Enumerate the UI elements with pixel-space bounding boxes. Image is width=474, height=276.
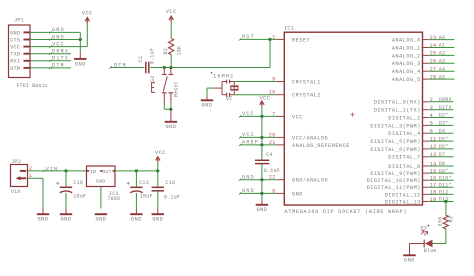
svg-text:R2: R2 [163,48,169,55]
wire C19 to ground [65,193,67,209]
pin 13 DIGITAL_7 net D7 [388,152,453,161]
svg-text:GND: GND [10,30,20,36]
wire rail pin22 to pin8 [261,180,263,194]
net label GND (JP1 pin2) [49,34,64,40]
svg-text:VCC: VCC [10,45,20,51]
svg-text:1: 1 [272,34,275,40]
svg-text:DIGITAL_1(TX): DIGITAL_1(TX) [374,108,421,114]
wire D0RX JP1 [30,53,71,55]
svg-text:D0RX: D0RX [52,49,69,55]
svg-text:D1TX: D1TX [52,56,69,62]
svg-text:C13: C13 [139,180,149,186]
wire RESET node up to pin 1 [240,39,276,67]
svg-text:9: 9 [272,77,275,83]
svg-text:GND: GND [52,27,65,33]
pin 3 DIGITAL_1(TX) net D1TX [374,105,454,114]
svg-text:ANALOG_3: ANALOG_3 [392,61,421,67]
svg-text:GND: GND [152,217,163,223]
svg-text:GND: GND [242,188,255,194]
svg-text:JP2: JP2 [11,159,21,165]
junction pin20 [260,136,263,139]
svg-text:D6*: D6* [439,144,449,150]
svg-text:D3*: D3* [439,121,449,127]
power VCC (pin 7) [260,96,271,107]
svg-text:A1: A1 [439,43,446,49]
wire VCC pin7 [239,115,277,117]
svg-text:IC1: IC1 [284,26,294,32]
svg-text:24: 24 [430,43,437,49]
wire AREF pin21 [239,144,277,146]
net label VIN [43,166,58,172]
svg-text:DIGITAL_5(PWM): DIGITAL_5(PWM) [370,139,421,145]
wire 5V rail [115,170,158,172]
wire C10 to ground [157,191,159,209]
svg-text:A0: A0 [439,35,446,41]
resistor R3 330 [437,215,454,229]
wire rail to ground [261,193,263,199]
junction resistor R2 [169,66,172,69]
svg-text:ANALOG_5: ANALOG_5 [392,77,421,83]
pin 12 DIGITAL_6(PWM) net D6* [370,144,453,153]
net label RST [239,34,255,40]
pin 16 DIGITAL_10(PWM) net D10* [367,175,454,184]
svg-text:D11*: D11* [439,183,452,189]
svg-text:AREF: AREF [242,140,259,146]
net label GND (JP1 pin1) [49,27,64,33]
net label DTR (JP1) [49,63,64,69]
svg-text:C19: C19 [73,180,83,186]
junction pin22 [260,178,263,181]
svg-text:DIGITAL_7: DIGITAL_7 [388,155,421,161]
pin 8 GND [272,188,303,197]
ground GND (C19) [60,209,72,223]
junction pin21 [260,143,263,146]
net label D0RX [49,49,69,55]
wire DTR to C1 [109,66,144,68]
wire C4 to GND rail [261,164,263,180]
svg-text:S2: S2 [150,75,156,82]
svg-text:Vin: Vin [11,189,21,195]
junction D13 [444,200,447,203]
ground GND (C13) [130,209,142,223]
svg-text:GND/ANALOG: GND/ANALOG [292,178,328,184]
svg-text:FTDI Basic: FTDI Basic [17,83,49,89]
svg-text:27: 27 [430,67,437,73]
svg-text:GND: GND [256,207,267,213]
ground GND (below S2) [165,109,177,130]
svg-text:DTR: DTR [114,62,127,68]
svg-text:VCC/ANALOG: VCC/ANALOG [292,135,328,141]
wire VCC JP1 [30,24,87,47]
svg-text:7805: 7805 [107,196,120,202]
wire S2 to ground [164,103,171,109]
wire to C13 [135,171,137,187]
wire R3 to LED [433,229,446,244]
wire DTR JP1 [30,67,71,69]
capacitor C4 0.1uF [255,152,280,174]
svg-text:DIGITAL_4: DIGITAL_4 [388,131,421,137]
pin 28 ANALOG_5 net A5 [392,74,455,83]
svg-text:GND: GND [404,258,415,264]
pin 7 VCC [272,111,303,120]
svg-text:0.1uF: 0.1uF [164,194,180,200]
wire to C19 [65,171,67,187]
svg-text:OUT: OUT [102,169,111,175]
power VCC (above JP1) [82,11,93,24]
svg-text:RESET: RESET [292,37,310,43]
svg-text:IN: IN [90,169,96,175]
power VCC (above R2) [166,9,177,22]
svg-text:GND: GND [38,217,49,223]
svg-text:C10: C10 [165,180,175,186]
svg-text:VCC: VCC [260,96,271,102]
svg-text:DIGITAL_2: DIGITAL_2 [388,115,421,121]
svg-text:GND: GND [292,191,303,197]
svg-text:GND: GND [52,34,65,40]
ground GND (IC1) [256,200,268,214]
svg-text:TXD: TXD [10,52,20,58]
svg-text:10K: 10K [177,46,183,56]
svg-text:DIGITAL_8: DIGITAL_8 [388,164,421,170]
svg-text:A2: A2 [439,51,446,57]
junction S2 ground [169,108,172,111]
svg-text:CRYSTAL2: CRYSTAL2 [292,93,321,99]
svg-text:0.1uF: 0.1uF [150,48,156,64]
svg-text:23: 23 [430,35,437,41]
wire rail pin7 to pin20 [261,116,263,137]
pin 22 GND/ANALOG [269,175,328,184]
pin 4 DIGITAL_2 net D2* [388,113,453,122]
net label D1TX [49,56,69,62]
pin 17 DIGITAL_11(PWM) net D11* [367,183,454,192]
svg-text:D4: D4 [439,128,446,134]
svg-text:VCC: VCC [242,111,255,117]
wire C13 to ground [135,193,137,209]
ground GND (Q2) [201,96,213,108]
LED D3 Blue [421,225,437,254]
svg-text:17: 17 [430,183,437,189]
svg-text:JP1: JP1 [14,18,24,24]
ground GND (below JP1) [74,53,86,67]
capacitor C19 10uF [56,180,86,199]
svg-text:DIGITAL_6(PWM): DIGITAL_6(PWM) [370,147,421,153]
svg-text:VCC: VCC [292,114,303,120]
wire rail to C4 [261,145,263,160]
svg-text:2: 2 [430,97,433,103]
svg-text:0.1uF: 0.1uF [264,168,280,174]
svg-text:Blue: Blue [424,248,437,254]
svg-text:DIGITAL_12: DIGITAL_12 [385,192,421,198]
junction pin7 [260,115,263,118]
svg-text:ATMEGA168 DIP SOCKET (WIRE WRA: ATMEGA168 DIP SOCKET (WIRE WRAP) [285,209,408,215]
pin 1 RESET [272,34,310,43]
resonator Q2 16MHz [207,72,239,102]
wire VCC pin20 [239,136,277,138]
svg-text:A3: A3 [439,59,446,65]
svg-text:GND: GND [131,217,142,223]
svg-text:C4: C4 [266,152,273,158]
pin 19 DIGITAL_13 net D13 [385,197,454,206]
svg-text:16MHz: 16MHz [213,73,234,79]
junction C19 [64,169,67,172]
svg-text:ANALOG_1: ANALOG_1 [392,45,421,51]
pin 11 DIGITAL_5(PWM) net D5* [370,136,453,145]
svg-text:RST: RST [242,34,255,40]
svg-text:6: 6 [430,129,433,135]
svg-text:ANALOG_2: ANALOG_2 [392,53,421,59]
svg-text:D9*: D9* [439,168,449,174]
svg-text:26: 26 [430,59,437,65]
svg-text:C1: C1 [138,55,144,62]
wire GND pin22 [239,179,277,181]
svg-text:ANALOG_REFERENCE: ANALOG_REFERENCE [292,143,350,149]
svg-text:A4: A4 [439,66,446,72]
svg-text:DIGITAL_0(RX): DIGITAL_0(RX) [374,100,421,106]
svg-text:DIGITAL_3(PWM): DIGITAL_3(PWM) [370,123,421,129]
capacitor C1 [138,48,156,73]
pin 23 ANALOG_0 net A0 [392,35,455,44]
svg-text:VCC: VCC [242,132,255,138]
capacitor C13 10uF [127,180,153,199]
connector JP1 (FTDI Basic) [9,18,49,89]
connector JP2 Vin [11,159,33,195]
wire IC3 GND to ground [100,187,102,209]
wire VCC arrow to rail [261,107,263,117]
svg-text:R3: R3 [449,216,455,223]
pin 9 CRYSTAL1 [272,77,321,86]
svg-text:10uF: 10uF [140,194,153,200]
svg-text:DIGITAL_11(PWM): DIGITAL_11(PWM) [367,185,421,191]
wire GND pin2 JP1 [30,39,80,41]
svg-text:GND: GND [95,217,106,223]
svg-text:28: 28 [430,74,437,80]
pin 5 DIGITAL_3(PWM) net D3* [370,121,453,130]
svg-text:VCC: VCC [155,150,166,156]
svg-text:GND: GND [75,61,86,67]
pin 27 ANALOG_4 net A4 [392,66,455,75]
wire rail pin20 to pin21 [261,137,263,145]
svg-text:D7: D7 [439,152,446,158]
capacitor C10 0.1uF [152,180,181,200]
svg-text:D5*: D5* [439,136,449,142]
pin 20 VCC/ANALOG [269,132,328,141]
ground GND (LED) [403,244,415,264]
svg-text:D2*: D2* [439,113,449,119]
wire to ground [79,40,81,54]
svg-text:Reset: Reset [174,81,180,97]
ground GND (JP2) [37,209,49,223]
pin 14 DIGITAL_8 net D8 [388,161,453,170]
svg-text:16: 16 [430,176,437,182]
wire CRYSTAL1 [234,81,277,83]
svg-text:ANALOG_0: ANALOG_0 [392,38,421,44]
svg-text:330: 330 [437,217,443,227]
ground GND (C10) [152,209,164,223]
wire R2 to node [170,55,172,68]
svg-text:DIGITAL_13: DIGITAL_13 [385,199,421,205]
junction pin8 [260,192,263,195]
pin 25 ANALOG_2 net A2 [392,51,455,60]
regulator IC3 7805 [87,166,121,202]
pin 26 ANALOG_3 net A3 [392,59,455,68]
svg-text:DTR: DTR [52,63,65,69]
svg-text:VCC: VCC [52,41,65,47]
svg-text:DTR: DTR [10,66,20,72]
svg-text:VCC: VCC [82,11,93,17]
svg-text:5: 5 [430,121,433,127]
switch S2 (Reset) [150,68,179,104]
pin 2 DIGITAL_0(RX) net D0RX [374,97,454,106]
pin 21 ANALOG_REFERENCE [269,140,350,149]
wire D1TX JP1 [30,60,71,62]
svg-text:11: 11 [430,136,437,142]
junction JP1 GND [79,38,82,41]
pin 18 DIGITAL_12 net D12 [385,190,454,199]
junction C10/VCC [156,169,159,172]
wire CRYSTAL2 [234,94,277,96]
svg-text:ANALOG_4: ANALOG_4 [392,69,421,75]
svg-text:3: 3 [430,105,433,111]
junction C13 [135,169,138,172]
svg-text:4: 4 [430,113,433,119]
svg-text:D10*: D10* [439,175,452,181]
wire GND pin1 JP1 [30,32,80,39]
svg-text:GND: GND [165,124,176,130]
svg-text:CTS: CTS [10,37,20,43]
svg-text:DIGITAL_9(PWM): DIGITAL_9(PWM) [370,171,421,177]
svg-text:VCC: VCC [166,9,177,15]
wire VCC to R2 [170,22,172,38]
svg-text:12: 12 [430,144,437,150]
resistor R2 10K [163,38,183,55]
svg-text:GND: GND [96,178,105,184]
power VCC (5V rail) [155,150,166,162]
svg-text:13: 13 [430,152,437,158]
svg-text:10uF: 10uF [73,194,86,200]
svg-text:D0RX: D0RX [439,97,452,103]
svg-text:GND: GND [202,103,213,109]
svg-text:19: 19 [430,197,437,203]
pin 15 DIGITAL_9(PWM) net D9* [370,168,453,177]
svg-text:D1TX: D1TX [439,105,452,111]
svg-text:A5: A5 [439,74,446,80]
pin 6 DIGITAL_4 net D4 [388,128,453,137]
junction RST [268,38,271,41]
svg-text:VIN: VIN [46,166,59,172]
wire GND pin8 [239,192,277,194]
wire LED to ground [410,243,425,245]
wire VCC arrow to rail [157,163,159,171]
IC1 ATMEGA168 body [284,26,423,206]
wire JP2 pin1 to ground [28,178,44,208]
svg-text:14: 14 [430,161,437,167]
svg-text:15: 15 [430,168,437,174]
svg-text:D12: D12 [439,190,449,196]
svg-text:18: 18 [430,190,437,196]
svg-text:CRYSTAL1: CRYSTAL1 [292,79,321,85]
wire VIN [28,170,87,172]
ground GND (IC3) [95,214,107,222]
svg-text:RXI: RXI [10,59,20,65]
pin 10 CRYSTAL2 [269,90,321,99]
svg-text:GND: GND [242,175,255,181]
wire D13 to R3 [445,202,447,216]
svg-text:D3: D3 [421,226,428,232]
net label VCC (JP1) [49,41,64,47]
wire RESET node [150,67,270,69]
junction switch S2 [163,66,166,69]
pin 24 ANALOG_1 net A1 [392,43,455,52]
svg-text:GND: GND [61,217,72,223]
svg-text:DIGITAL_10(PWM): DIGITAL_10(PWM) [367,178,421,184]
svg-text:25: 25 [430,51,437,57]
wire to C10 [157,171,159,187]
svg-text:D8: D8 [439,161,446,167]
